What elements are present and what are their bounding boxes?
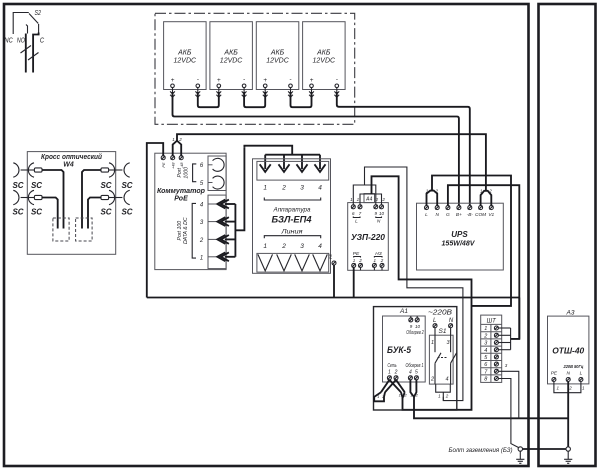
svg-text:АКБ: АКБ [177, 50, 192, 57]
wire jumper battery1- to battery2+ [198, 92, 219, 107]
PoE port 1 chevron [208, 256, 217, 258]
svg-text:9: 9 [410, 324, 413, 329]
PoE port 5 symbol [208, 182, 213, 184]
ground symbol at OTSh [564, 447, 572, 464]
svg-text:SC: SC [12, 181, 23, 190]
svg-text:4: 4 [318, 185, 322, 192]
splice cassette dashed box left [53, 218, 69, 241]
svg-text:3: 3 [300, 185, 304, 192]
svg-text:Сеть: Сеть [388, 363, 397, 369]
battery AKB1 box [164, 22, 207, 90]
ground symbol at bolt [516, 451, 524, 463]
PoE uplink ports sub-box [208, 156, 226, 191]
svg-text:2: 2 [394, 370, 398, 376]
SC connector left-bottom: inner arc and plug [28, 190, 34, 204]
UZP A4 label box [364, 194, 375, 203]
svg-text:1: 1 [438, 394, 441, 399]
battery AKB3 box [256, 22, 299, 90]
svg-text:Болт заземления (БЗ): Болт заземления (БЗ) [449, 447, 513, 454]
svg-text:PE: PE [551, 371, 558, 377]
BUK bottom terminals [387, 376, 391, 380]
PoE power cable bracket [173, 141, 182, 156]
svg-text:1000: 1000 [183, 167, 189, 179]
svg-text:3: 3 [200, 220, 204, 226]
right enclosure frame [539, 4, 596, 466]
switch S2 lever [29, 14, 38, 24]
svg-text:-48: -48 [180, 162, 184, 168]
svg-text:DATA & DC: DATA & DC [183, 217, 189, 244]
svg-text:+: + [263, 77, 267, 84]
wire UPS G to ShT bridge [448, 185, 519, 339]
wire battery1+ bus to UPS B+ [173, 92, 459, 206]
svg-text:АКБ: АКБ [316, 50, 331, 57]
svg-text:N: N [566, 371, 570, 377]
svg-text:S1: S1 [439, 328, 447, 335]
svg-text:6: 6 [352, 211, 355, 216]
wire PoE power cable to UPS COM/V1 [177, 134, 486, 190]
BUK Obogrev2 terminals [409, 318, 413, 322]
svg-text:V1: V1 [488, 212, 494, 218]
svg-text:2: 2 [415, 392, 419, 397]
svg-text:220В 50Гц: 220В 50Гц [563, 364, 584, 369]
svg-text:N: N [449, 318, 454, 324]
A1 enclosure box [374, 307, 457, 410]
svg-text:1: 1 [353, 258, 356, 263]
svg-text:-: - [243, 76, 246, 83]
svg-text:2: 2 [375, 197, 379, 202]
svg-text:1: 1 [373, 258, 376, 263]
svg-text:G: G [446, 212, 450, 218]
BUK-5 box [383, 316, 426, 382]
svg-text:4: 4 [409, 370, 412, 376]
UZP top terminal numbers [352, 211, 384, 216]
BUK bottom pin numbers [388, 370, 418, 376]
svg-text:W4: W4 [63, 162, 74, 169]
battery terminal stubs [173, 88, 337, 92]
OTSh terminal labels [551, 371, 583, 377]
PoE port 3 chevron [208, 221, 217, 223]
svg-text:SC: SC [121, 181, 132, 190]
ground bolt circle [518, 447, 522, 451]
svg-text:2: 2 [380, 258, 384, 263]
ShT row numbers [483, 326, 488, 382]
svg-text:2: 2 [358, 258, 362, 263]
svg-text:L: L [425, 212, 428, 218]
SC connector left-bottom: outer arc [13, 190, 19, 204]
fiber wire right-top to splice box [82, 170, 101, 229]
OTSh-40 heater box [548, 316, 589, 384]
UPS terminals [425, 206, 429, 210]
ShT row terminals [494, 326, 498, 330]
wire ShT row7 to PE junction [498, 371, 518, 418]
PoE data group bracket [192, 203, 196, 258]
svg-text:SC: SC [121, 208, 132, 217]
svg-text:2: 2 [178, 137, 182, 142]
svg-text:3: 3 [447, 340, 451, 346]
svg-text:1: 1 [431, 340, 434, 346]
cable break slash marks [21, 46, 32, 54]
switch S2 NO terminal stub [26, 25, 28, 34]
UZP input cable bracket (pins 6,9) [353, 185, 376, 205]
svg-text:12VDC: 12VDC [174, 58, 198, 65]
svg-text:B+: B+ [456, 212, 462, 218]
svg-text:ШТ: ШТ [487, 319, 498, 325]
svg-text:SC: SC [31, 181, 42, 190]
svg-text:SC: SC [100, 181, 111, 190]
S1 breaker box [429, 335, 453, 384]
wire from S2 NO down [25, 34, 27, 73]
fiber wire right-bottom to splice box [88, 198, 101, 229]
BZL-EP4 box [253, 159, 331, 273]
PoE uplink group bracket [193, 164, 197, 182]
svg-text:1: 1 [263, 243, 267, 250]
SC connector right-top: inner arc and plug [109, 163, 115, 177]
UZP L N group labels [353, 217, 360, 218]
svg-text:РоЕ: РоЕ [174, 196, 188, 203]
svg-text:4: 4 [446, 377, 449, 383]
svg-text:155W/48V: 155W/48V [442, 238, 476, 247]
svg-text:-: - [336, 76, 339, 83]
wire ShT row8 to ground bolt [498, 379, 519, 448]
svg-text:1: 1 [172, 137, 175, 142]
svg-text:4: 4 [484, 348, 487, 354]
UZP output cable bracket (pins 7,10) [360, 194, 382, 205]
svg-text:SC: SC [12, 208, 23, 217]
wire from S2 C down [33, 33, 39, 73]
svg-text:12VDC: 12VDC [313, 58, 337, 65]
svg-text:8: 8 [484, 377, 488, 383]
svg-text:1: 1 [410, 392, 412, 397]
wire Obogrev1 to OTSh-40 heater [414, 397, 568, 418]
svg-text:Port 100: Port 100 [177, 221, 183, 241]
BZL input arrows [260, 164, 326, 172]
svg-text:12VDC: 12VDC [220, 58, 244, 65]
wire UZP input cable to S1 [365, 167, 463, 401]
svg-text:2: 2 [488, 189, 492, 194]
svg-text:АКБ: АКБ [223, 50, 238, 57]
BUK Obogrev1 cable legs [410, 380, 416, 397]
UPS box [417, 203, 504, 270]
svg-text:NC: NC [4, 38, 13, 45]
SC connector left-top: inner arc and plug [28, 163, 34, 177]
battery polarity labels [171, 76, 339, 84]
svg-text:-: - [289, 76, 292, 83]
svg-text:S2: S2 [35, 10, 42, 17]
wire UZP output cable to UPS and BUK [372, 176, 472, 409]
UPS terminal labels [425, 212, 494, 218]
svg-text:-: - [197, 76, 200, 83]
svg-text:SC: SC [100, 208, 111, 217]
svg-text:4: 4 [318, 243, 322, 250]
battery connector chevrons [170, 91, 339, 97]
wire jumper battery2- to battery3+ [244, 92, 265, 107]
svg-text:1: 1 [350, 197, 353, 202]
battery terminal circles [171, 84, 339, 88]
battery bank dash-dot enclosure [155, 13, 355, 124]
svg-text:2: 2 [483, 333, 487, 339]
svg-text:L: L [580, 371, 583, 377]
svg-text:1: 1 [556, 386, 559, 391]
wire PoE data trunk to BZL [225, 148, 245, 257]
PoE power terminals [161, 156, 165, 160]
fiber wire left-bottom to splice box [42, 198, 58, 229]
wire UPS LN cable to UZP output junction [432, 176, 511, 306]
svg-text:1: 1 [484, 326, 487, 332]
wire jumper battery3- to battery4+ [291, 92, 312, 107]
svg-text:1: 1 [388, 370, 391, 376]
PoE port 2 chevron [208, 238, 217, 240]
BZL PE terminal [332, 261, 336, 265]
switch S2 NC wire [13, 13, 29, 35]
wire PoE PE to ground bus [147, 143, 163, 298]
ShT bridge rows 1-4 [498, 328, 510, 350]
PoE port 6 symbol [208, 164, 213, 166]
svg-text:+: + [171, 77, 175, 84]
220V supply terminals [433, 324, 437, 328]
svg-text:Коммутатор: Коммутатор [157, 188, 206, 195]
svg-text:N: N [435, 212, 439, 218]
PoE switch box [155, 153, 226, 269]
svg-text:PE: PE [162, 162, 166, 168]
svg-text:БУК-5: БУК-5 [387, 345, 412, 355]
BZL line bracket [264, 236, 320, 239]
UZP top pin numbers [350, 197, 385, 202]
svg-text:1: 1 [582, 386, 585, 391]
svg-text:Обогрев 1: Обогрев 1 [406, 363, 424, 369]
svg-text:УЗП-220: УЗП-220 [351, 233, 386, 242]
S1 pole link dashes [438, 357, 449, 359]
wire battery4- to UPS B- [337, 92, 470, 206]
svg-text:Port: Port [177, 167, 183, 177]
SC connector right-bottom: outer arc [124, 190, 130, 204]
UPS output cable bracket COM,V1 [481, 191, 492, 206]
svg-text:N: N [377, 219, 381, 225]
SC connector right-bottom: inner arc and plug [109, 190, 115, 204]
wire BZL top feed [244, 146, 320, 169]
svg-text:А3: А3 [566, 309, 575, 316]
BZL bottom terminal row box [257, 253, 329, 272]
S1 pole N [450, 328, 452, 353]
OTSh terminals [552, 378, 556, 382]
svg-text:PE: PE [328, 254, 333, 260]
PoE data ports sub-box [208, 195, 226, 269]
wire BUK Set crossing to cable connectors [381, 380, 405, 392]
svg-text:ОТШ-40: ОТШ-40 [552, 346, 584, 356]
svg-text:SC: SC [31, 208, 42, 217]
svg-text:10: 10 [415, 324, 421, 329]
svg-text:БЗЛ-ЕП4: БЗЛ-ЕП4 [272, 215, 313, 226]
svg-text:1: 1 [263, 185, 267, 192]
ground bus wire [147, 297, 520, 299]
ShT terminal strip box [481, 315, 502, 382]
svg-text:1: 1 [357, 197, 360, 202]
svg-text:Обогрев 2: Обогрев 2 [406, 330, 424, 336]
wire OTSh cable down to ground circle [567, 382, 569, 447]
UZP top terminals [351, 205, 355, 209]
splice cassette dashed box right [76, 218, 93, 241]
wire BZL PE to ground bus [333, 265, 335, 298]
switch S2 C terminal stub [38, 24, 40, 33]
PoE port 4 chevron [208, 203, 217, 205]
S1 pole L [434, 328, 436, 353]
SC labels [12, 181, 132, 217]
S1 output cable bracket [436, 384, 451, 392]
svg-text:Аппаратура: Аппаратура [273, 207, 311, 214]
svg-text:-B-: -B- [467, 212, 474, 218]
svg-text:2: 2 [435, 188, 439, 193]
svg-text:7: 7 [359, 211, 362, 216]
svg-text:+: + [217, 77, 221, 84]
wire ground bus drop at ShT [518, 298, 520, 339]
svg-text:L: L [355, 219, 358, 225]
svg-text:9: 9 [375, 211, 378, 216]
svg-text:1: 1 [200, 256, 203, 262]
svg-text:А4: А4 [365, 196, 372, 202]
BZL bottom numbers [263, 243, 322, 250]
svg-text:2: 2 [199, 238, 204, 244]
SC connector left-top: outer arc [13, 163, 19, 177]
svg-text:COM: COM [475, 212, 486, 218]
UPS input cable bracket L,N [427, 191, 438, 206]
BZL top terminal row box [257, 161, 329, 180]
svg-text:4: 4 [200, 203, 204, 209]
svg-text:А1: А1 [399, 308, 408, 315]
svg-text:2: 2 [281, 243, 286, 250]
battery AKB2 box [210, 22, 253, 90]
wire UZP PE to ground bus [353, 267, 355, 297]
optical cross W4 box [27, 152, 115, 255]
battery AKB4 box [303, 22, 346, 90]
OTSh cable bracket [554, 382, 581, 393]
svg-text:NO: NO [17, 38, 25, 45]
UZP-220 box [348, 203, 389, 271]
svg-text:C: C [40, 38, 45, 45]
svg-text:5: 5 [415, 370, 418, 376]
svg-text:Линия: Линия [280, 229, 303, 236]
svg-text:2: 2 [445, 394, 449, 399]
BZL apparatus bracket [264, 198, 320, 201]
svg-text:3: 3 [300, 243, 304, 250]
svg-text:+: + [310, 77, 314, 84]
svg-text:5: 5 [200, 181, 204, 187]
BZL line V connectors [258, 254, 327, 271]
svg-text:L: L [433, 318, 436, 324]
svg-text:+48: +48 [171, 162, 175, 169]
svg-text:6: 6 [200, 163, 204, 169]
svg-text:3: 3 [505, 363, 508, 368]
svg-text:10: 10 [379, 211, 385, 216]
svg-text:2: 2 [281, 185, 286, 192]
ShT rows [481, 332, 502, 375]
BZL top numbers [263, 185, 322, 192]
svg-text:2: 2 [430, 377, 434, 383]
svg-text:12VDC: 12VDC [266, 58, 290, 65]
SC connector right-top: outer arc [124, 163, 130, 177]
svg-text:~220В: ~220В [428, 309, 452, 316]
fiber wire left-top to splice box [42, 170, 64, 229]
svg-text:Кросс оптический: Кросс оптический [41, 152, 102, 161]
svg-text:АКБ: АКБ [270, 50, 285, 57]
wire between ground points [523, 448, 567, 450]
